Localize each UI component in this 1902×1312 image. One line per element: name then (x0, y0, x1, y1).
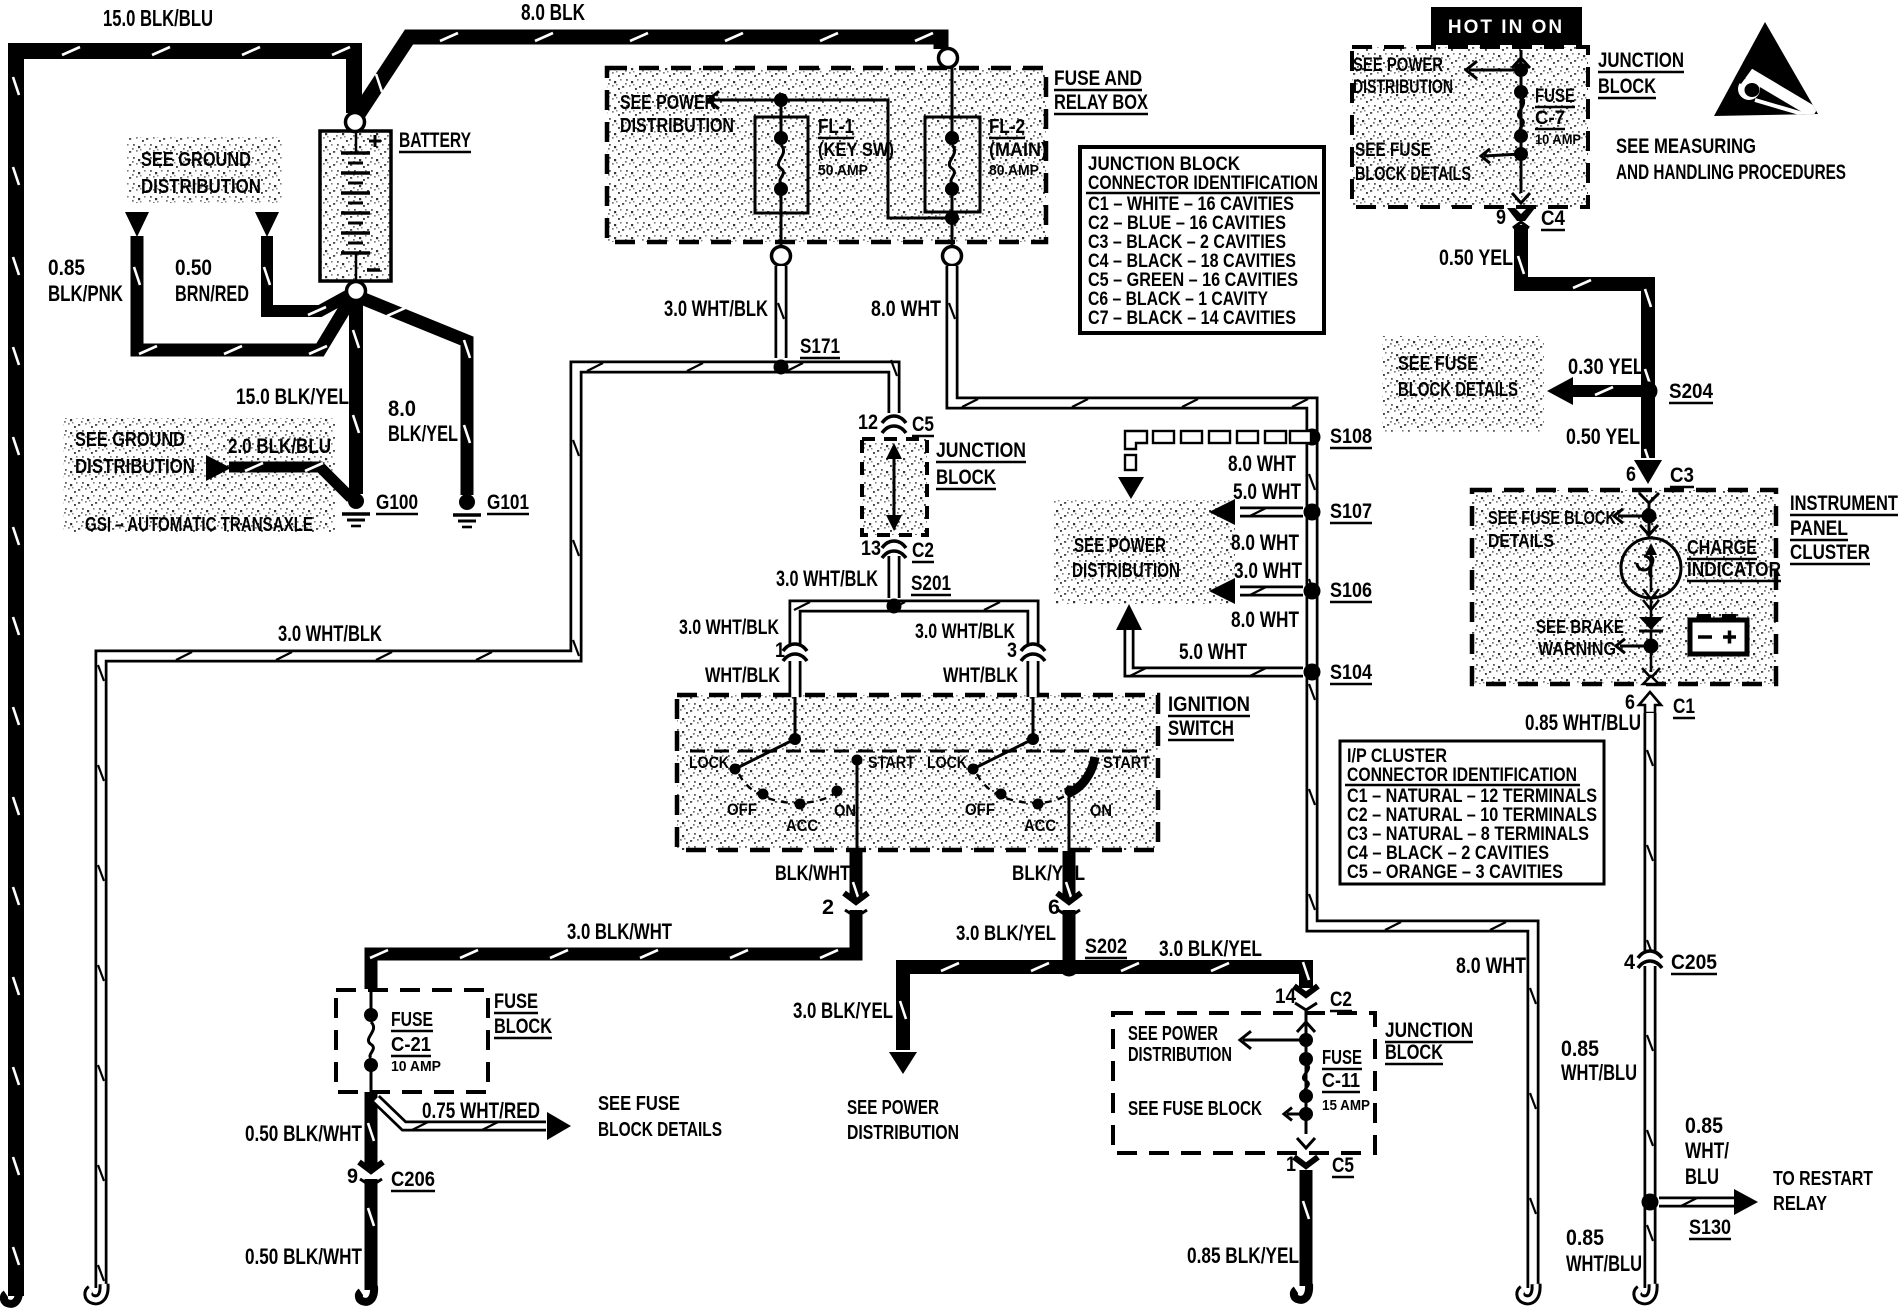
svg-text:ON: ON (1090, 801, 1112, 820)
svg-text:C4: C4 (1541, 207, 1565, 230)
svg-text:S104: S104 (1330, 661, 1372, 684)
svg-text:SEE POWER: SEE POWER (1128, 1023, 1218, 1045)
fusible link FL-1 (755, 100, 808, 247)
wire hook bottom (0.85 BLK/YEL) (1294, 1284, 1309, 1300)
svg-text:CHARGE: CHARGE (1687, 537, 1757, 559)
svg-text:13: 13 (861, 537, 881, 560)
svg-text:FL-2: FL-2 (989, 116, 1025, 138)
wire WHT/BLK into switch right (1027, 661, 1040, 697)
connector 13 C2 (884, 542, 904, 556)
svg-text:1: 1 (1286, 1153, 1296, 1176)
svg-text:0.50: 0.50 (175, 255, 212, 280)
junction block (mid) box (862, 439, 927, 535)
svg-text:C5: C5 (1332, 1154, 1354, 1177)
svg-text:ON: ON (834, 801, 856, 820)
wire 0.30 YEL arrow wire (1565, 387, 1644, 395)
junction block arrow (C5 to C2) (893, 449, 896, 526)
connector 14 C2 (1294, 994, 1318, 1003)
wire 0.50 BRN/RED (264, 236, 351, 315)
svg-text:WHT/: WHT/ (1685, 1138, 1729, 1163)
svg-text:S107: S107 (1330, 500, 1372, 523)
svg-text:C2: C2 (912, 539, 934, 562)
splice S107 (1304, 504, 1321, 521)
svg-text:15.0 BLK/YEL: 15.0 BLK/YEL (236, 384, 349, 409)
svg-text:RELAY BOX: RELAY BOX (1054, 91, 1148, 114)
svg-text:PANEL: PANEL (1790, 517, 1848, 540)
wire 0.85 WHT/BLU C1 to bottom (1647, 713, 1653, 1288)
svg-text:C-11: C-11 (1322, 1070, 1360, 1092)
svg-text:BLOCK DETAILS: BLOCK DETAILS (1355, 164, 1471, 185)
svg-text:DISTRIBUTION: DISTRIBUTION (141, 176, 261, 198)
svg-text:SEE FUSE: SEE FUSE (1355, 140, 1431, 161)
svg-text:LOCK: LOCK (689, 753, 730, 772)
svg-text:10 AMP: 10 AMP (1535, 131, 1581, 147)
svg-text:3.0 BLK/YEL: 3.0 BLK/YEL (1159, 936, 1262, 961)
svg-text:0.75 WHT/RED: 0.75 WHT/RED (422, 1098, 540, 1123)
svg-text:C4 – BLACK – 2 CAVITIES: C4 – BLACK – 2 CAVITIES (1347, 843, 1549, 864)
ignition switch box (677, 695, 1158, 850)
wire 8.0 WHT FL-2 to S108 (949, 266, 1312, 433)
svg-text:DISTRIBUTION: DISTRIBUTION (620, 115, 734, 137)
svg-text:3.0 BLK/YEL: 3.0 BLK/YEL (793, 998, 893, 1023)
svg-text:C1 – NATURAL – 12 TERMINALS: C1 – NATURAL – 12 TERMINALS (1347, 786, 1597, 807)
svg-text:6: 6 (1048, 896, 1060, 919)
wire 0.75 WHT/RED (376, 1099, 546, 1130)
wire 15.0 BLK/BLU (13, 47, 354, 1296)
svg-text:8.0 BLK: 8.0 BLK (521, 0, 585, 25)
svg-text:8.0: 8.0 (388, 396, 416, 421)
connector 1 C5 (1294, 1157, 1318, 1166)
svg-text:HOT IN ON: HOT IN ON (1448, 17, 1564, 38)
svg-text:14: 14 (1275, 985, 1296, 1008)
svg-text:DISTRIBUTION: DISTRIBUTION (1072, 560, 1180, 582)
connector 2 (844, 901, 868, 910)
FL-1 bottom terminal circle (772, 247, 791, 266)
svg-text:C6 – BLACK – 1 CAVITY: C6 – BLACK – 1 CAVITY (1088, 289, 1268, 310)
junction block 2 (bottom) dashed box (1113, 1013, 1375, 1153)
svg-text:CONNECTOR IDENTIFICATION: CONNECTOR IDENTIFICATION (1088, 173, 1318, 194)
svg-text:G101: G101 (487, 491, 529, 514)
svg-text:0.50 BLK/WHT: 0.50 BLK/WHT (245, 1121, 362, 1146)
svg-text:2.0 BLK/BLU: 2.0 BLK/BLU (228, 435, 331, 458)
svg-text:C3 – NATURAL – 8 TERMINALS: C3 – NATURAL – 8 TERMINALS (1347, 824, 1589, 845)
svg-text:S204: S204 (1669, 380, 1713, 403)
battery (320, 131, 391, 282)
wire 5.0 WHT S104 run (1129, 630, 1303, 676)
connector 12 C5 (884, 417, 904, 431)
fuse C-7 (1466, 50, 1530, 203)
splice S130 (1642, 1194, 1659, 1211)
svg-text:15.0 BLK/BLU: 15.0 BLK/BLU (103, 5, 213, 31)
wire 8.0 BLK (357, 33, 941, 116)
svg-text:9: 9 (1496, 206, 1506, 229)
svg-text:0.85: 0.85 (1566, 1225, 1604, 1250)
svg-text:ACC: ACC (786, 816, 818, 835)
svg-text:S171: S171 (800, 335, 840, 358)
wire hook bottom (0.50 BLK/WHT) (359, 1286, 374, 1302)
wire 3.0 WHT/BLK S171 left run (98, 360, 897, 1288)
see power distribution line + junction to FL-2 (710, 100, 952, 218)
wire 3.0 WHT/BLK S201 branches (794, 602, 1033, 644)
battery terminal circle bottom (347, 282, 366, 301)
svg-text:FUSE: FUSE (1535, 86, 1575, 107)
wire hook bottom (0.85 WHT/BLU) (1638, 1284, 1653, 1300)
svg-text:C7 – BLACK – 14 CAVITIES: C7 – BLACK – 14 CAVITIES (1088, 308, 1296, 329)
fuse C-11 (1240, 1008, 1315, 1148)
svg-text:DISTRIBUTION: DISTRIBUTION (75, 456, 195, 478)
svg-text:3.0 BLK/WHT: 3.0 BLK/WHT (567, 919, 672, 944)
svg-text:3.0 BLK/YEL: 3.0 BLK/YEL (956, 922, 1056, 945)
svg-text:SEE BRAKE: SEE BRAKE (1536, 617, 1624, 637)
charge indicator (1621, 538, 1681, 599)
stipple patch: see power distribution (mid right) (1053, 500, 1235, 604)
svg-text:BLK/YEL: BLK/YEL (1012, 862, 1085, 885)
svg-text:9: 9 (347, 1165, 358, 1188)
svg-text:C1 – WHITE – 16 CAVITIES: C1 – WHITE – 16 CAVITIES (1088, 194, 1294, 215)
svg-text:BLOCK: BLOCK (1598, 75, 1656, 98)
see fuse block details junction dot (1642, 509, 1657, 524)
svg-text:C206: C206 (391, 1168, 435, 1191)
svg-text:6: 6 (1626, 463, 1636, 486)
svg-text:SEE GROUND: SEE GROUND (141, 149, 251, 171)
wire 3.0 WHT S106 arrow (1240, 587, 1303, 595)
svg-text:INSTRUMENT: INSTRUMENT (1790, 492, 1898, 515)
battery icon in cluster (1690, 614, 1747, 654)
svg-text:BLOCK: BLOCK (1385, 1041, 1443, 1064)
wire 8.0 WHT bus S108-S104 down right (1309, 437, 1536, 1288)
diode (1639, 617, 1663, 630)
svg-text:SEE POWER: SEE POWER (1353, 55, 1443, 76)
svg-text:AND HANDLING PROCEDURES: AND HANDLING PROCEDURES (1616, 161, 1846, 184)
svg-text:DISTRIBUTION: DISTRIBUTION (847, 1122, 959, 1144)
fusible link FL-2 (925, 68, 980, 247)
wire 2.0 BLK/BLU (229, 463, 351, 498)
wire 0.85 BLK/PNK (134, 236, 352, 354)
svg-text:INDICATOR: INDICATOR (1687, 559, 1781, 581)
svg-text:5.0 WHT: 5.0 WHT (1233, 479, 1301, 504)
svg-text:I/P CLUSTER: I/P CLUSTER (1347, 746, 1447, 767)
svg-text:SEE FUSE BLOCK: SEE FUSE BLOCK (1128, 1098, 1262, 1120)
svg-text:JUNCTION: JUNCTION (1598, 49, 1684, 72)
svg-text:0.85: 0.85 (1561, 1036, 1599, 1061)
svg-text:C205: C205 (1671, 951, 1717, 974)
svg-text:SEE MEASURING: SEE MEASURING (1616, 135, 1756, 158)
see power distribution down arrow (889, 1052, 917, 1074)
svg-text:START: START (868, 753, 916, 772)
connector 4 C205 (1640, 952, 1660, 966)
cluster output connector (1642, 668, 1660, 678)
svg-text:DISTRIBUTION: DISTRIBUTION (1353, 77, 1453, 98)
svg-text:BLK/WHT: BLK/WHT (775, 862, 850, 885)
svg-text:ACC: ACC (1024, 816, 1056, 835)
svg-text:FUSE AND: FUSE AND (1054, 67, 1142, 90)
svg-text:BLOCK DETAILS: BLOCK DETAILS (1398, 379, 1518, 401)
cluster input chevron (1639, 493, 1659, 503)
svg-text:OFF: OFF (727, 800, 757, 819)
svg-text:DISTRIBUTION: DISTRIBUTION (1128, 1044, 1232, 1066)
wire 0.85 BLK/YEL (1303, 1170, 1309, 1286)
svg-text:WHT/BLU: WHT/BLU (1561, 1060, 1637, 1085)
svg-text:C5: C5 (912, 413, 934, 436)
svg-text:WHT/BLU: WHT/BLU (1566, 1251, 1642, 1276)
svg-text:3: 3 (1007, 639, 1017, 662)
svg-text:FL-1: FL-1 (818, 116, 854, 138)
svg-text:0.30 YEL: 0.30 YEL (1568, 354, 1644, 379)
svg-text:C1: C1 (1673, 695, 1695, 718)
stipple patch: see ground distribution (upper) (127, 137, 282, 203)
svg-text:10 AMP: 10 AMP (391, 1058, 441, 1075)
svg-text:S130: S130 (1689, 1216, 1731, 1239)
splice S171 (774, 360, 789, 375)
svg-text:GSI – AUTOMATIC TRANSAXLE: GSI – AUTOMATIC TRANSAXLE (85, 514, 313, 536)
svg-text:5.0 WHT: 5.0 WHT (1179, 639, 1247, 664)
svg-text:WHT/BLK: WHT/BLK (705, 664, 780, 687)
svg-text:S201: S201 (911, 572, 951, 595)
svg-text:LOCK: LOCK (927, 753, 968, 772)
svg-text:FUSE: FUSE (1322, 1047, 1362, 1069)
svg-text:SEE FUSE BLOCK: SEE FUSE BLOCK (1488, 508, 1616, 528)
svg-text:C4 – BLACK – 18 CAVITIES: C4 – BLACK – 18 CAVITIES (1088, 251, 1296, 272)
svg-text:0.85: 0.85 (1685, 1113, 1723, 1138)
svg-text:12: 12 (858, 411, 878, 434)
svg-text:C-7: C-7 (1535, 108, 1565, 129)
svg-text:S106: S106 (1330, 579, 1372, 602)
wire 0.50 BLK/WHT (368, 1092, 374, 1290)
svg-text:JUNCTION: JUNCTION (1385, 1019, 1473, 1042)
svg-text:0.50 YEL: 0.50 YEL (1439, 245, 1513, 270)
svg-text:SEE POWER: SEE POWER (847, 1097, 939, 1119)
junction block (top right) box (1352, 47, 1588, 207)
svg-text:G100: G100 (376, 491, 418, 514)
svg-text:4: 4 (1624, 951, 1635, 974)
svg-text:C3: C3 (1670, 464, 1694, 487)
svg-text:WARNING: WARNING (1538, 639, 1616, 659)
splice S104 (1304, 664, 1321, 681)
svg-text:8.0 WHT: 8.0 WHT (1231, 607, 1299, 632)
svg-text:SWITCH: SWITCH (1168, 717, 1234, 740)
svg-text:0.85: 0.85 (48, 255, 85, 280)
see brake warning junction dot (1644, 639, 1659, 654)
svg-text:3.0 WHT/BLK: 3.0 WHT/BLK (776, 566, 878, 591)
svg-text:JUNCTION: JUNCTION (936, 439, 1026, 462)
svg-text:C2: C2 (1330, 988, 1352, 1011)
connector 1 (785, 645, 805, 659)
ignition switch inner dashed line (690, 750, 1148, 753)
svg-text:C2 – NATURAL – 10 TERMINALS: C2 – NATURAL – 10 TERMINALS (1347, 805, 1597, 826)
connector 6 C1 (open up arrow) (1639, 692, 1661, 713)
connector 9 C206 (359, 1170, 383, 1179)
connector 6 (1057, 901, 1081, 910)
wire 3.0 WHT/BLK C2 to S201 (888, 556, 901, 598)
connector 6 C3 (arrow down) (1634, 460, 1662, 484)
svg-text:8.0 WHT: 8.0 WHT (871, 296, 941, 321)
svg-text:S108: S108 (1330, 425, 1372, 448)
svg-text:8.0 WHT: 8.0 WHT (1231, 530, 1299, 555)
svg-text:CONNECTOR IDENTIFICATION: CONNECTOR IDENTIFICATION (1347, 765, 1577, 786)
wire 3.0 WHT/BLK FL-1 to S171 (778, 266, 784, 358)
svg-text:BLOCK: BLOCK (936, 466, 996, 489)
svg-text:SEE FUSE: SEE FUSE (1398, 353, 1478, 375)
stipple patch: see ground distribution / GSI (63, 418, 335, 532)
splice S201 (887, 599, 902, 614)
ground distribution triangle right (255, 212, 279, 237)
svg-text:FUSE: FUSE (391, 1009, 433, 1031)
wire 0.85 WHT/BLU to restart relay (1659, 1198, 1734, 1206)
svg-text:CLUSTER: CLUSTER (1790, 541, 1870, 564)
wire 15.0 BLK/YEL battery to G100 (353, 299, 359, 494)
wire WHT/BLK into switch left (789, 661, 802, 697)
svg-text:C2 – BLUE – 16 CAVITIES: C2 – BLUE – 16 CAVITIES (1088, 213, 1286, 234)
svg-text:80 AMP: 80 AMP (989, 162, 1039, 179)
ground distribution triangle left (125, 212, 149, 237)
splice S108 (1304, 429, 1321, 446)
svg-text:3.0 WHT: 3.0 WHT (1234, 558, 1302, 583)
ignition switch left pole (730, 697, 863, 851)
junction block connector identification box (1080, 147, 1324, 333)
svg-text:IGNITION: IGNITION (1168, 693, 1250, 716)
connector 9 C4 (1507, 208, 1535, 221)
svg-text:BLK/YEL: BLK/YEL (388, 421, 458, 446)
svg-text:SEE POWER: SEE POWER (620, 92, 716, 114)
S108 dashed hollow wire (1153, 431, 1174, 443)
wire hook bottom (3.0 WHT/BLK) (89, 1284, 104, 1300)
instrument panel cluster box (1472, 490, 1776, 684)
ignition switch right pole (968, 697, 1096, 851)
FL-2 bottom terminal circle (943, 247, 962, 266)
wire 8.0 BLK/YEL to G101 (359, 297, 470, 495)
see fuse block details arrow (547, 1112, 571, 1140)
fuse and relay box (607, 68, 1046, 242)
svg-text:0.50 BLK/WHT: 0.50 BLK/WHT (245, 1244, 362, 1269)
FL-2 top terminal circle (939, 49, 958, 68)
svg-text:FUSE: FUSE (494, 990, 538, 1013)
svg-text:1: 1 (775, 639, 785, 662)
svg-text:3.0 WHT/BLK: 3.0 WHT/BLK (278, 621, 382, 646)
svg-text:WHT/BLK: WHT/BLK (943, 664, 1018, 687)
svg-text:S202: S202 (1085, 935, 1127, 958)
svg-text:C5 – GREEN – 16 CAVITIES: C5 – GREEN – 16 CAVITIES (1088, 270, 1298, 291)
see ground distribution arrow (2.0 BLK/BLU) (206, 455, 231, 481)
svg-text:OFF: OFF (965, 800, 995, 819)
svg-text:TO RESTART: TO RESTART (1773, 1168, 1873, 1190)
stipple patch: see fuse block details (right of S204) (1382, 336, 1544, 432)
wire hook bottom (8.0 WHT) (1521, 1284, 1536, 1300)
svg-text:BLOCK DETAILS: BLOCK DETAILS (598, 1119, 722, 1141)
ground G101 (453, 494, 481, 527)
connector 3 (1023, 645, 1043, 659)
wire BLK/YEL output (1066, 851, 1072, 962)
svg-text:0.85 BLK/YEL: 0.85 BLK/YEL (1187, 1243, 1299, 1268)
svg-text:JUNCTION BLOCK: JUNCTION BLOCK (1088, 154, 1240, 175)
svg-text:3.0 WHT/BLK: 3.0 WHT/BLK (664, 296, 768, 321)
splice S202 (1060, 958, 1079, 977)
svg-text:BLU: BLU (1685, 1164, 1719, 1189)
ground G100 (342, 493, 370, 526)
splice S106 (1304, 583, 1321, 600)
fuse block (bottom left) dashed box (336, 990, 488, 1092)
splice S204 (1639, 382, 1658, 401)
wire 5.0 WHT S107 arrow (1240, 508, 1303, 516)
svg-text:(MAIN): (MAIN) (989, 140, 1047, 161)
svg-text:SEE GROUND: SEE GROUND (75, 429, 185, 451)
I/P cluster connector identification box (1340, 741, 1604, 884)
svg-text:2: 2 (822, 896, 834, 919)
svg-text:RELAY: RELAY (1773, 1193, 1828, 1215)
svg-text:8.0 WHT: 8.0 WHT (1456, 953, 1526, 978)
svg-text:15 AMP: 15 AMP (1322, 1097, 1370, 1114)
svg-text:SEE FUSE: SEE FUSE (598, 1093, 680, 1115)
wire 3.0 BLK/YEL S202 run (900, 962, 1309, 1050)
wire BLK/WHT output (370, 851, 859, 989)
svg-text:BATTERY: BATTERY (399, 129, 471, 152)
svg-text:0.50 YEL: 0.50 YEL (1566, 424, 1640, 449)
svg-text:50 AMP: 50 AMP (818, 162, 868, 179)
wire hook bottom left (4, 1288, 19, 1304)
svg-text:SEE POWER: SEE POWER (1074, 535, 1166, 557)
battery terminal circle top (346, 113, 365, 132)
wire 0.50 YEL (1518, 225, 1651, 467)
svg-text:START: START (1103, 753, 1151, 772)
svg-text:3.0 WHT/BLK: 3.0 WHT/BLK (679, 616, 779, 639)
svg-text:8.0 WHT: 8.0 WHT (1228, 451, 1296, 476)
svg-text:C3 – BLACK – 2 CAVITIES: C3 – BLACK – 2 CAVITIES (1088, 232, 1286, 253)
svg-text:(KEY SW): (KEY SW) (818, 140, 894, 161)
svg-text:DETAILS: DETAILS (1488, 531, 1554, 551)
svg-text:BRN/RED: BRN/RED (175, 281, 249, 306)
svg-text:0.85 WHT/BLU: 0.85 WHT/BLU (1525, 710, 1641, 735)
HOT IN ON label box (1431, 7, 1582, 45)
svg-text:BLK/PNK: BLK/PNK (48, 281, 123, 306)
svg-text:C-21: C-21 (391, 1034, 431, 1056)
svg-text:BLOCK: BLOCK (494, 1015, 552, 1038)
fuse C-21 (364, 990, 378, 1092)
svg-text:C5 – ORANGE – 3 CAVITIES: C5 – ORANGE – 3 CAVITIES (1347, 862, 1563, 883)
svg-text:3.0 WHT/BLK: 3.0 WHT/BLK (915, 620, 1015, 643)
